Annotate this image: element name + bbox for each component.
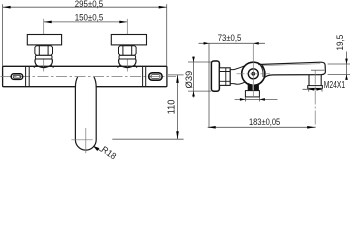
- dimension 183 line: [208, 126, 316, 128]
- spout fill (hides body bottom edge behind spout): [75, 77, 96, 150]
- valve vertical centerline (73 right extension): [252, 44, 254, 97]
- svg-text:19,5: 19,5: [335, 35, 345, 51]
- left slot: [11, 74, 23, 80]
- dimension 73 arrows (outside pointing in): [204, 42, 209, 45]
- arm/circle joint arcs: [260, 64, 265, 77]
- hub center dot: [251, 72, 255, 76]
- spout outline: [75, 77, 96, 150]
- lever arm chamfer lines: [261, 64, 320, 66]
- connector 2 bell: [119, 59, 136, 65]
- svg-text:183±0,05: 183±0,05: [249, 117, 280, 127]
- radius leader R18: [93, 146, 101, 152]
- bracket wedge (dark): [248, 83, 259, 91]
- dimension 183 arrows: [208, 126, 216, 129]
- spout centerlines: [85, 128, 87, 153]
- dimension M24X1 arrows: [309, 88, 315, 91]
- connector 2 escutcheon: [111, 35, 146, 45]
- connector 1 escutcheon: [27, 35, 61, 45]
- dimension 295 arrows: [3, 6, 11, 9]
- circle horizontal centerline: [237, 73, 271, 75]
- svg-text:M24X1: M24X1: [324, 80, 346, 91]
- dimension 150 line: [44, 21, 128, 23]
- valve body circle: [242, 62, 265, 85]
- outlet flare: [308, 86, 323, 89]
- svg-text:110: 110: [167, 99, 178, 114]
- outlet centerline: [314, 71, 316, 129]
- dimension 19,5 extension lines: [328, 64, 350, 75]
- dimension 295 extension lines: [3, 4, 167, 66]
- connector 2 band: [119, 55, 136, 59]
- dimension M24X1 line: [303, 88, 323, 90]
- dimension 19,5 arrows (outside): [345, 59, 348, 64]
- dimension 110 arrows: [176, 75, 179, 83]
- connector 1 centerline: [43, 19, 45, 72]
- dimension dia39 line: [193, 57, 195, 98]
- dimension 150 arrows: [44, 21, 52, 24]
- dimension 19,5 line: [346, 52, 348, 80]
- left cap junction double line: [26, 66, 30, 86]
- dimension 110 line: [177, 75, 179, 139]
- connector 2 centerline: [126, 19, 128, 72]
- hub ring: [248, 69, 258, 79]
- wall extension line: [208, 43, 210, 127]
- connector 1 bell: [35, 59, 52, 65]
- body outline: [3, 66, 167, 86]
- body centerline: [1, 76, 177, 78]
- lever arm: [258, 62, 325, 78]
- bracket base: [245, 91, 259, 97]
- connector 1 band: [35, 55, 52, 59]
- connector 1 hex nut: [35, 46, 53, 56]
- dimension dia39 extension lines: [188, 62, 211, 91]
- svg-text:73±0,5: 73±0,5: [218, 33, 242, 43]
- dimension 73 line: [199, 42, 266, 44]
- svg-text:R18: R18: [100, 144, 119, 159]
- flange: [211, 61, 219, 91]
- dimension M24X1 tick extensions: [309, 88, 322, 92]
- svg-text:150±0,5: 150±0,5: [75, 12, 104, 22]
- outlet drop: [309, 75, 321, 86]
- connector 2 hex nut: [119, 46, 137, 56]
- dimension 295 line: [3, 6, 167, 8]
- hex nut (side): [219, 68, 230, 86]
- svg-text:295±0,5: 295±0,5: [75, 0, 103, 9]
- neck: [230, 66, 245, 85]
- svg-text:Ø39: Ø39: [184, 71, 195, 89]
- right cap junction double line: [143, 66, 146, 86]
- small unlabeled dimension under bracket: [235, 98, 278, 100]
- right slot: [149, 73, 162, 80]
- dimension dia39 arrows (outside): [192, 57, 195, 62]
- dimension 110 extension lines: [112, 75, 183, 139]
